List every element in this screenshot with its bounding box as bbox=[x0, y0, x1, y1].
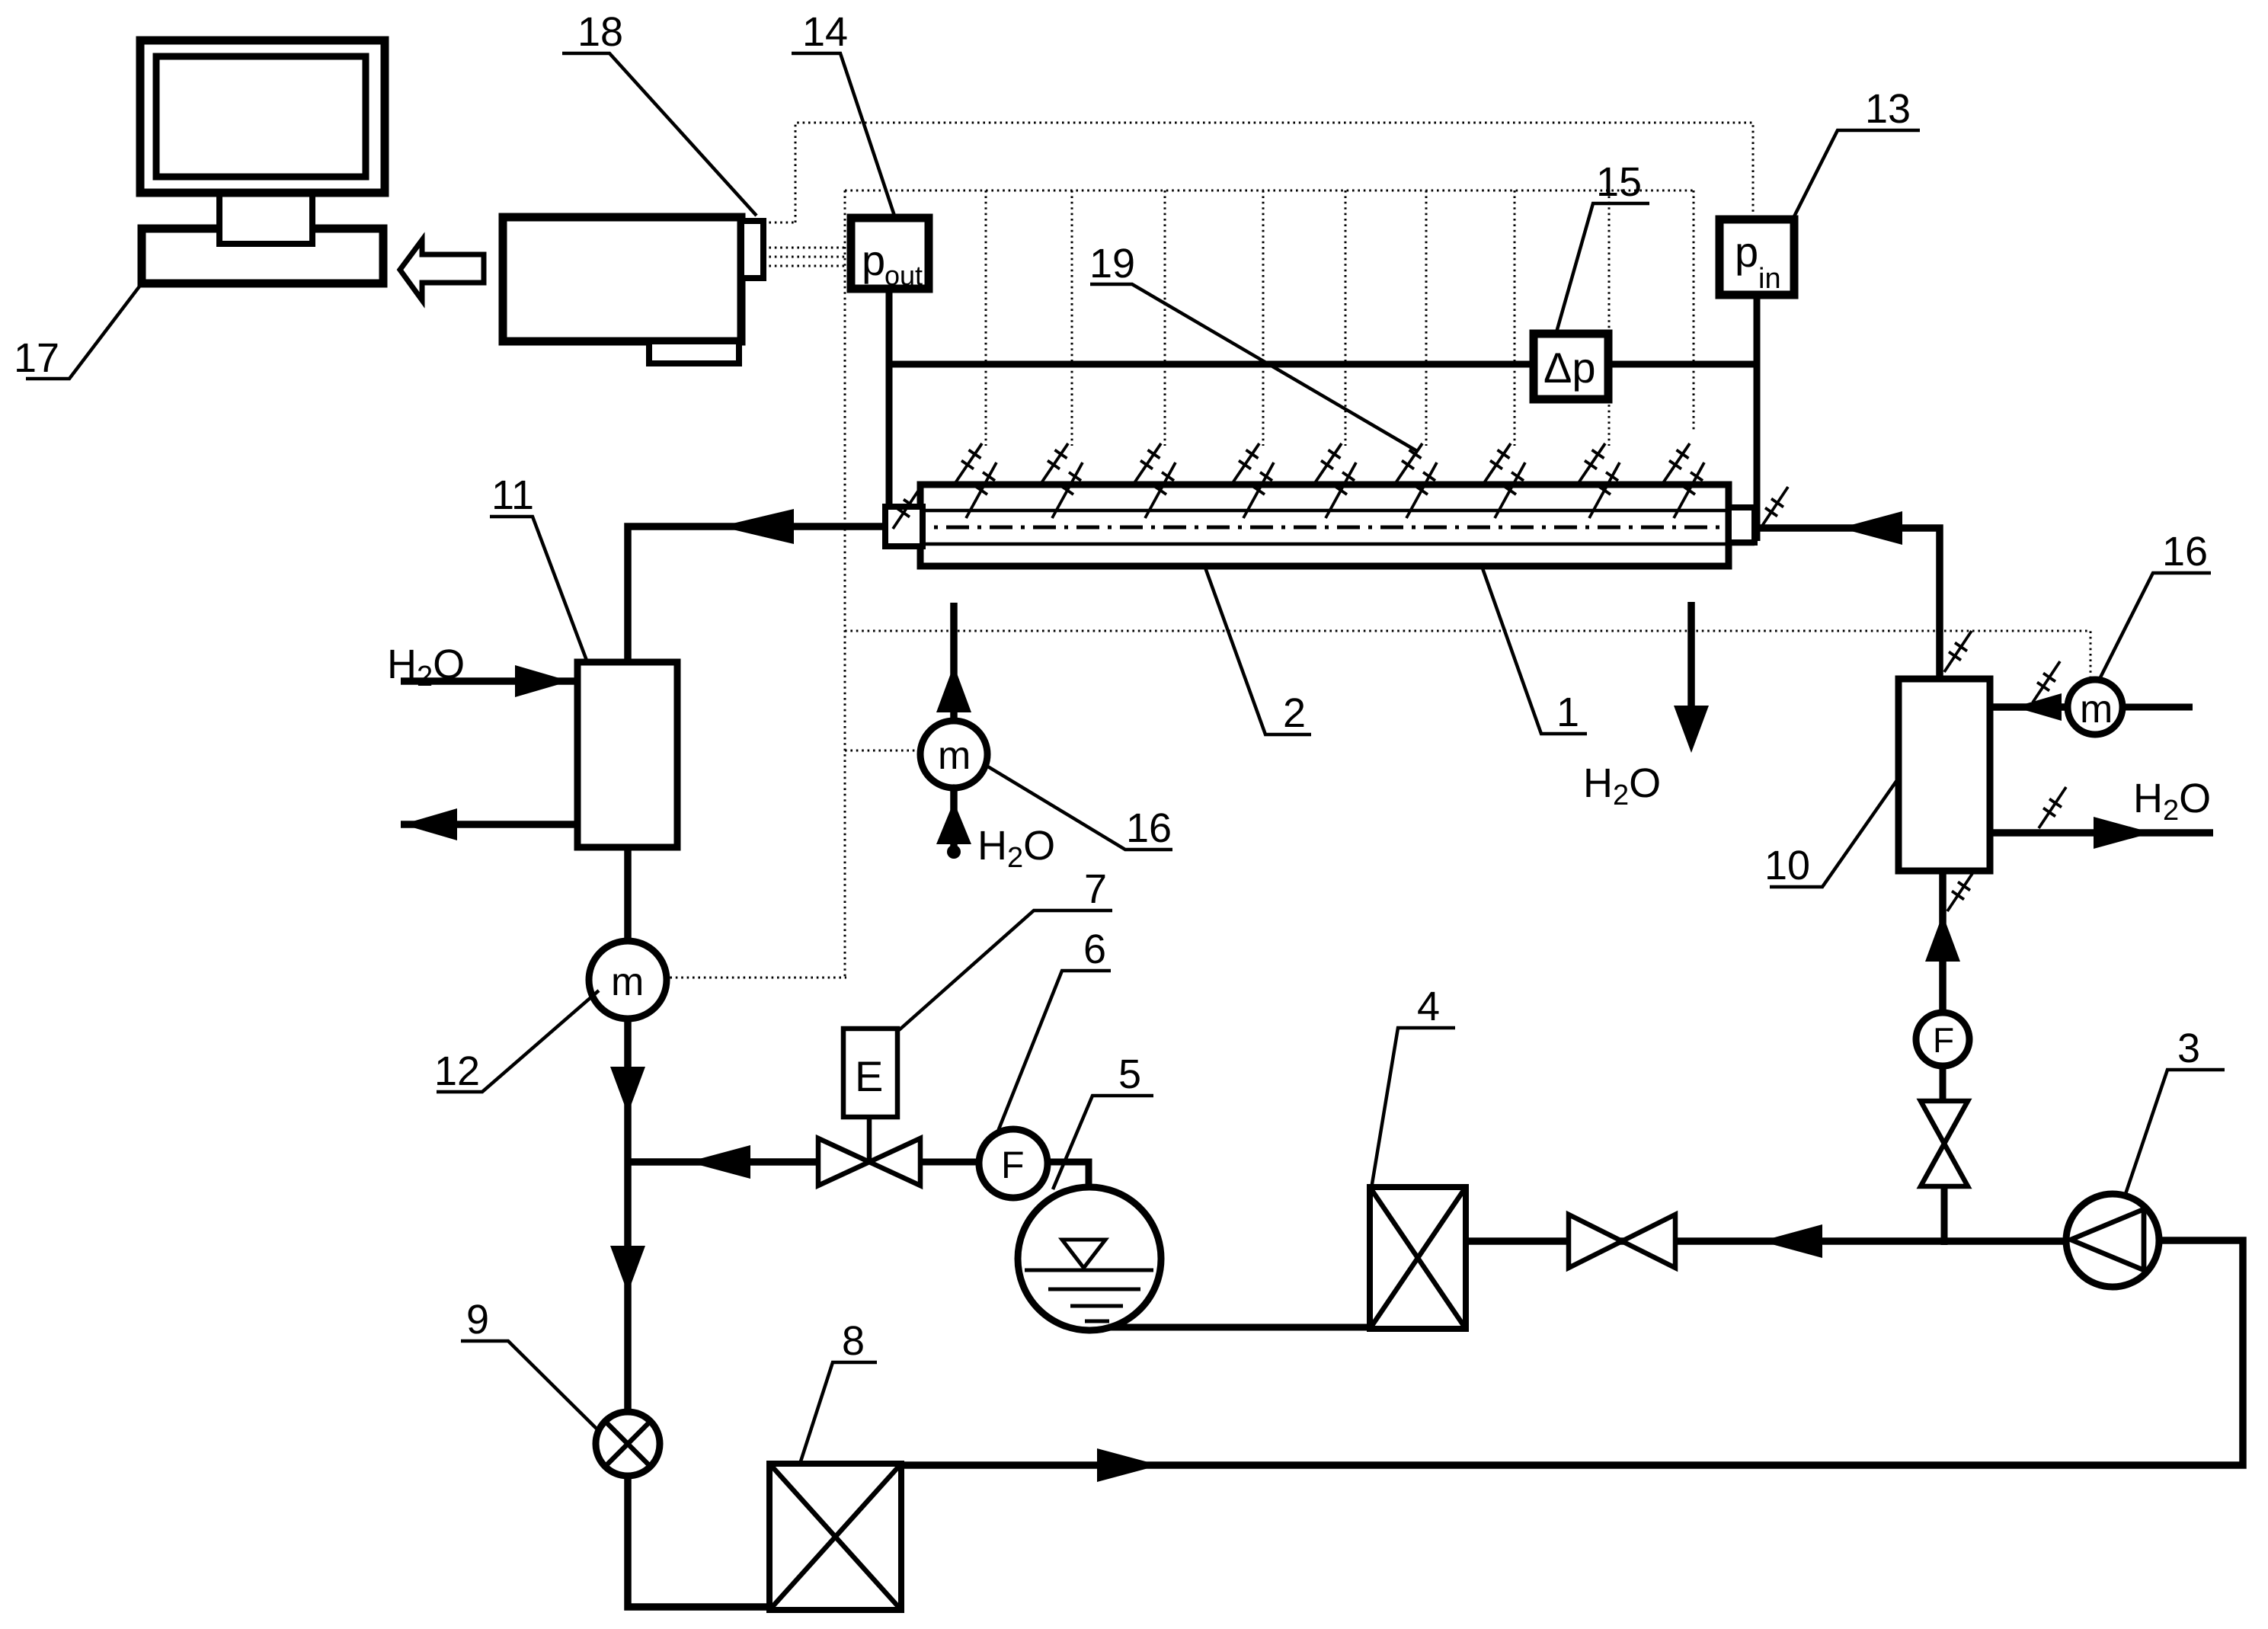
label 2 bbox=[1205, 568, 1311, 736]
flowmeter F 6 bbox=[979, 1129, 1048, 1198]
test section right end cap bbox=[1729, 507, 1755, 542]
svg-text:out: out bbox=[884, 260, 923, 291]
differential pressure header line bbox=[889, 361, 1757, 368]
signal wire: thermocouple lead 9 bbox=[1693, 190, 1695, 431]
wire: condenser 11 to flowmeter 12 bbox=[624, 847, 632, 943]
signal wire: three leads logger to p_out bbox=[763, 248, 851, 266]
thermocouple 19 group 2 bbox=[1039, 443, 1083, 518]
label 16 middle bbox=[983, 763, 1172, 851]
thermocouple at inlet cap bbox=[1761, 487, 1788, 528]
svg-text:m: m bbox=[938, 734, 971, 778]
label 8 bbox=[800, 1318, 877, 1464]
flow arrow on return line bbox=[1097, 1448, 1160, 1482]
wire: valve 9 down to evaporator 8 bbox=[628, 1476, 773, 1607]
H2O label right bbox=[2133, 776, 2211, 827]
svg-text:16: 16 bbox=[1126, 805, 1172, 851]
tank 5 bbox=[1018, 1187, 1161, 1330]
svg-text:4: 4 bbox=[1417, 984, 1440, 1029]
H2O label middle bbox=[977, 823, 1055, 874]
thermocouple on H2O outlet bbox=[2039, 787, 2066, 828]
H2O vent line above middle flowmeter bbox=[936, 603, 971, 719]
svg-text:16: 16 bbox=[2162, 529, 2208, 574]
label 10 bbox=[1764, 780, 1897, 888]
computer 17: keyboard base bbox=[142, 229, 383, 283]
svg-text:p: p bbox=[862, 236, 885, 284]
thermocouple on m16 line bbox=[2033, 661, 2060, 702]
signal wire: thermocouple lead 8 bbox=[1608, 190, 1611, 446]
label 13 bbox=[1793, 86, 1920, 219]
pressure sensor p_out 14 bbox=[851, 218, 929, 291]
H2O inlet line to condenser 11 bbox=[401, 665, 577, 697]
data logger 18 bbox=[503, 217, 741, 341]
pump 3 bbox=[2066, 1194, 2159, 1287]
signal wire: thermocouple lead 6 bbox=[1425, 190, 1428, 446]
signal wire: bus to right flowmeter m bbox=[845, 631, 2090, 680]
signal wire: thermocouple lead 1 bbox=[985, 190, 987, 446]
thermocouple 19 group 6 bbox=[1393, 443, 1437, 518]
svg-text:12: 12 bbox=[434, 1048, 480, 1094]
flowmeter m 12 bbox=[589, 941, 667, 1019]
thermocouple below preheater bbox=[1947, 870, 1975, 911]
wire: inlet pipe to test section bbox=[1755, 528, 1940, 679]
test section outer shell 2 bbox=[920, 485, 1729, 566]
computer 17: monitor stand bbox=[219, 193, 312, 244]
H2O supply stub below middle flowmeter bbox=[936, 788, 971, 859]
flow arrow toward junction bbox=[688, 1145, 750, 1179]
condenser 11 bbox=[577, 662, 677, 847]
thermocouple 19 group 7 bbox=[1482, 443, 1525, 518]
svg-text:2: 2 bbox=[1283, 690, 1306, 736]
label 14 bbox=[792, 9, 895, 218]
thermocouple 19 group 1 bbox=[953, 443, 996, 518]
signal wire: thermocouple bus (inner dotted box top) bbox=[845, 190, 1694, 192]
flow arrow pump discharge bbox=[1761, 1224, 1822, 1258]
signal wire: thermocouple lead 5 bbox=[1345, 190, 1347, 446]
thermocouple 19 group 3 bbox=[1132, 443, 1176, 518]
signal wire: outer dotted loop logger to p_in bbox=[763, 123, 1753, 222]
label 1 bbox=[1483, 568, 1587, 735]
data logger 18: connector bbox=[741, 221, 763, 278]
flow arrow down 2 bbox=[610, 1246, 645, 1293]
H2O label condenser inlet bbox=[387, 642, 465, 693]
test tube centerline bbox=[859, 526, 1771, 530]
wire: main line branch up bbox=[1941, 1186, 1948, 1245]
wire: pump suction loop bbox=[901, 1240, 2243, 1465]
evaporator 8 bbox=[769, 1464, 901, 1610]
thermocouple 19 group 8 bbox=[1576, 443, 1620, 518]
branch valve right (hourglass) bbox=[1921, 1101, 1968, 1186]
svg-text:6: 6 bbox=[1083, 927, 1106, 972]
wire: tank 5 to heat exchanger 4 bbox=[1108, 1324, 1370, 1331]
svg-text:11: 11 bbox=[491, 472, 534, 518]
label 3 bbox=[2126, 1026, 2225, 1194]
thermocouple on inlet vertical bbox=[1944, 631, 1972, 672]
label 18 bbox=[562, 9, 757, 216]
label 11 bbox=[490, 472, 588, 664]
label 15 bbox=[1556, 159, 1649, 332]
svg-text:15: 15 bbox=[1596, 159, 1642, 205]
control valve 6/7 body bbox=[818, 1117, 920, 1186]
label 7 bbox=[899, 866, 1112, 1030]
flow arrow on outlet pipe bbox=[720, 509, 794, 544]
valve between 4 and 3 bbox=[1569, 1215, 1675, 1268]
preheater 10 bbox=[1899, 679, 1990, 871]
svg-text:10: 10 bbox=[1764, 843, 1810, 888]
label 9 bbox=[461, 1297, 599, 1431]
hollow data-flow arrow to computer bbox=[400, 240, 484, 300]
label 16 right bbox=[2100, 529, 2211, 677]
label 19 bbox=[1089, 241, 1417, 451]
water supply line to m 16 bbox=[2122, 704, 2193, 711]
signal wire: to flowmeter m 12 bbox=[664, 977, 846, 979]
svg-text:p: p bbox=[1735, 228, 1758, 276]
svg-text:3: 3 bbox=[2177, 1026, 2200, 1071]
test tube 1: inner walls bbox=[888, 510, 1755, 544]
water line from flowmeter m 16 to preheater 10 bbox=[1990, 693, 2068, 721]
svg-text:8: 8 bbox=[842, 1318, 865, 1364]
svg-text:5: 5 bbox=[1118, 1051, 1141, 1097]
svg-text:1: 1 bbox=[1556, 690, 1579, 735]
wire: flowmeter 12 down to junction and valve 9 bbox=[624, 1018, 632, 1413]
svg-text:in: in bbox=[1758, 263, 1781, 295]
H2O outlet line from preheater 10 bbox=[1990, 817, 2213, 849]
label 4 bbox=[1371, 984, 1455, 1189]
signal wire: thermocouple lead 7 bbox=[1514, 190, 1516, 446]
svg-text:17: 17 bbox=[14, 335, 59, 381]
heat exchanger 4 bbox=[1370, 1187, 1466, 1329]
wire: bypass line from control valve to junction bbox=[628, 1158, 821, 1166]
svg-text:13: 13 bbox=[1865, 86, 1911, 132]
signal wire: long vertical collector bbox=[844, 190, 846, 978]
svg-text:18: 18 bbox=[577, 9, 623, 55]
svg-text:F: F bbox=[1933, 1020, 1954, 1060]
H2O label drain bbox=[1583, 760, 1661, 811]
svg-text:E: E bbox=[855, 1052, 883, 1100]
thermocouple 19 group 4 bbox=[1230, 443, 1274, 518]
svg-text:m: m bbox=[611, 960, 644, 1004]
label 5 bbox=[1053, 1051, 1153, 1189]
shut-off valve 9 bbox=[596, 1412, 660, 1476]
main line from heat exchanger 4 to pump 3 bbox=[1466, 1237, 2071, 1245]
svg-text:F: F bbox=[1001, 1144, 1025, 1186]
pressure tap line p_out bbox=[886, 289, 893, 546]
wire: valve to flowmeter F right bbox=[1940, 1066, 1947, 1103]
pressure tap line p_in bbox=[1754, 295, 1761, 541]
label 12 bbox=[434, 991, 599, 1094]
actuator E 7 bbox=[843, 1029, 897, 1117]
flowmeter F right bbox=[1916, 1013, 1969, 1066]
differential pressure sensor 15 bbox=[1534, 334, 1608, 399]
test section left end cap bbox=[885, 507, 923, 546]
svg-text:m: m bbox=[2080, 687, 2113, 731]
svg-text:9: 9 bbox=[466, 1297, 489, 1343]
wire: flowmeter F to preheater 10 bbox=[1925, 871, 1960, 1013]
label 6 bbox=[996, 927, 1111, 1137]
wire: valve to flowmeter F 6 bbox=[920, 1159, 983, 1166]
wire: outlet pipe from test section bbox=[628, 526, 888, 662]
pressure sensor p_in 13 bbox=[1719, 219, 1794, 295]
wire: flowmeter 6 to tank 5 bbox=[1047, 1162, 1089, 1190]
label 17 bbox=[14, 283, 142, 381]
svg-text:7: 7 bbox=[1084, 866, 1107, 912]
flowmeter m 16 middle bbox=[920, 721, 987, 788]
H2O drain arrow right of test section bbox=[1674, 602, 1709, 753]
signal wire: thermocouple lead 4 bbox=[1262, 190, 1265, 446]
svg-text:Δp: Δp bbox=[1543, 344, 1596, 392]
flow arrow down 1 bbox=[610, 1067, 645, 1114]
signal wire: thermocouple lead 3 bbox=[1164, 190, 1166, 446]
H2O outlet line from condenser 11 bbox=[401, 808, 577, 840]
computer 17: monitor bbox=[140, 40, 385, 193]
signal wire: to middle flowmeter m bbox=[845, 750, 921, 752]
thermocouple 19 group 5 bbox=[1313, 443, 1356, 518]
thermocouple 19 group 9 bbox=[1661, 443, 1704, 518]
thermocouple at outlet cap bbox=[893, 488, 920, 529]
flowmeter m 16 right bbox=[2068, 680, 2122, 734]
flow arrow on inlet pipe bbox=[1840, 511, 1902, 545]
signal wire: thermocouple lead 2 bbox=[1071, 190, 1073, 446]
svg-text:19: 19 bbox=[1089, 241, 1135, 286]
data logger 18: foot bbox=[649, 341, 739, 363]
svg-text:14: 14 bbox=[802, 9, 848, 55]
